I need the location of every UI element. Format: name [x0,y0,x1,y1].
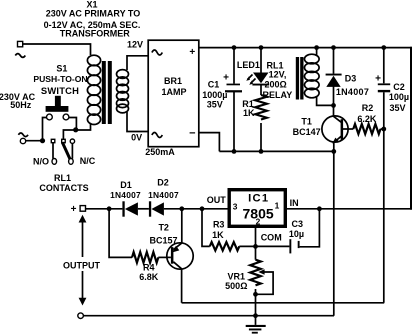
svg-text:SWITCH: SWITCH [41,85,79,96]
svg-text:200Ω: 200Ω [264,80,286,90]
svg-text:12V: 12V [127,39,143,49]
svg-text:35V: 35V [389,103,405,113]
svg-text:PUSH-TO-ON: PUSH-TO-ON [33,74,87,84]
svg-text:C2: C2 [393,82,405,92]
svg-text:230V AC PRIMARY TO: 230V AC PRIMARY TO [46,8,141,18]
svg-text:IN: IN [290,198,299,208]
svg-text:C1: C1 [208,80,220,90]
svg-text:D2: D2 [157,178,169,188]
svg-text:RELAY: RELAY [263,90,293,100]
svg-text:10µ: 10µ [289,229,304,239]
svg-text:BC157: BC157 [149,235,177,245]
svg-text:T2: T2 [158,223,169,233]
svg-text:−: − [189,128,195,140]
svg-text:6.2K: 6.2K [357,114,377,124]
svg-text:TRANSFORMER: TRANSFORMER [60,29,130,39]
svg-text:1N4007: 1N4007 [336,87,369,97]
svg-text:N/O: N/O [33,157,49,167]
svg-text:+: + [223,72,229,83]
svg-text:OUTPUT: OUTPUT [63,261,101,271]
svg-text:OUT: OUT [207,195,227,205]
svg-text:R2: R2 [362,103,374,113]
svg-text:LED1: LED1 [237,60,260,70]
svg-text:RL1: RL1 [54,173,71,183]
svg-text:1N4007: 1N4007 [148,190,179,200]
svg-text:1000µ: 1000µ [202,90,227,100]
svg-text:1K: 1K [243,108,255,118]
svg-text:N/C: N/C [80,156,96,166]
svg-text:3: 3 [233,202,238,212]
svg-text:2: 2 [256,217,261,227]
svg-text:12V,: 12V, [269,70,287,80]
svg-text:+: + [71,204,77,215]
svg-text:1AMP: 1AMP [161,87,186,97]
svg-text:D3: D3 [345,74,357,84]
svg-text:+: + [375,73,381,84]
svg-text:500Ω: 500Ω [225,281,247,291]
svg-text:+: + [189,47,195,58]
svg-text:CONTACTS: CONTACTS [39,183,88,193]
svg-text:35V: 35V [207,100,223,110]
svg-text:50Hz: 50Hz [10,100,32,110]
svg-text:250mA: 250mA [145,147,175,157]
svg-text:COM: COM [261,233,282,243]
svg-text:0V: 0V [131,133,142,143]
svg-text:IC1: IC1 [248,193,269,205]
svg-text:S1: S1 [56,64,67,74]
svg-text:BC147: BC147 [293,127,321,137]
svg-text:C3: C3 [292,219,304,229]
svg-text:1N4007: 1N4007 [110,190,141,200]
svg-text:100µ: 100µ [389,92,409,102]
svg-text:BR1: BR1 [164,76,182,86]
svg-text:1: 1 [275,201,280,211]
svg-text:R3: R3 [213,220,225,230]
svg-text:1K: 1K [212,230,224,240]
svg-text:D1: D1 [120,180,132,190]
svg-text:T1: T1 [301,117,312,127]
svg-text:6.8K: 6.8K [139,272,159,282]
